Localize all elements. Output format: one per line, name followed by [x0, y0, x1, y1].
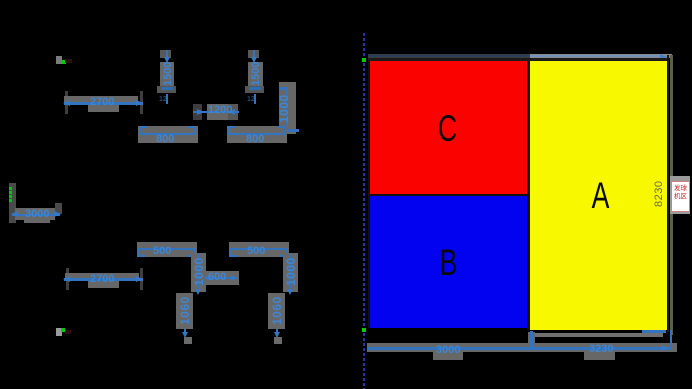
- vertical dimension 1500 bottom halo: [245, 86, 264, 93]
- dimension 2700 lower line: [64, 278, 143, 281]
- vertical dimension 1000 text: [279, 94, 290, 123]
- vertical dimension 1060 left halo: [176, 293, 193, 329]
- vertical dimension 1000 bottom-left halo: [191, 253, 206, 292]
- top right small arrow: [660, 54, 667, 60]
- dimension 500 right text: [247, 246, 265, 256]
- snap marker top: [362, 58, 366, 62]
- dimension 500 left text: [153, 246, 171, 256]
- dimension 800 left halo: [138, 126, 198, 143]
- dimension 800 right halo: [227, 126, 287, 143]
- divider vertical: [527, 61, 530, 330]
- dimension 600 text: [208, 272, 226, 282]
- snap marker bottom: [362, 328, 366, 332]
- right border: [667, 55, 669, 332]
- dimension 500 right halo: [229, 242, 289, 257]
- dimension 500 right shape: [230, 248, 232, 257]
- vertical dimension 1060 right arrow: [276, 329, 278, 335]
- bottom dims: hidden band under yellow: [535, 333, 663, 337]
- bottom grip box: [56, 328, 62, 336]
- dimension 2700 lower text: [90, 274, 114, 284]
- vertical dimension 600 text halo: [160, 62, 174, 87]
- dimension 800 left text: [156, 134, 174, 144]
- dimension 500 left halo: [137, 242, 197, 257]
- grip box: [56, 56, 62, 64]
- dimension 2700 text: [90, 97, 114, 107]
- divider C/B: [370, 194, 527, 196]
- bottom line right arrow: [661, 345, 669, 351]
- region C (red): [370, 61, 527, 194]
- top edge line: [368, 58, 669, 61]
- dimension 600 halo: [203, 271, 239, 285]
- dimension 2700 ghost extension right: [140, 91, 143, 114]
- dimension 2700 right arrow: [136, 100, 143, 106]
- label A: [586, 181, 616, 210]
- region B (blue): [370, 196, 527, 328]
- vertical dimension 600 bottom halo: [157, 86, 176, 93]
- dimension 2700 lower ghost right: [140, 268, 143, 290]
- bottom faint red smudge: [65, 330, 71, 334]
- vertical dimension 1060 right grip: [274, 337, 282, 344]
- dimension 800 left shape: [139, 126, 147, 128]
- label C: [433, 114, 463, 143]
- bottom dimension text 3230: [589, 344, 613, 354]
- dimension 1200 left arrow: [197, 109, 204, 115]
- vertical dimension 1060 right text: [272, 296, 283, 325]
- vertical text 8230: [654, 181, 664, 207]
- bottom dimension line: [367, 347, 672, 350]
- dimension 2700 ghost extension left: [65, 91, 68, 114]
- dimension 2700 halo: [64, 96, 138, 105]
- faint red smudge: [65, 59, 72, 63]
- dimension 600 arrows: [204, 275, 210, 281]
- dimension 1200 text: [208, 105, 232, 115]
- vertical dimension 1000 bottom stub: [285, 129, 299, 132]
- vertical dimension 600 down arrow: [166, 50, 168, 58]
- dimension 1200 right arrow: [228, 109, 235, 115]
- dimension 3000 arrows: [11, 211, 18, 217]
- vertical dimension 1000 bottom-right halo: [283, 253, 298, 292]
- dimension 2700 lower ghost left: [66, 268, 69, 290]
- right label gray backing: [670, 176, 690, 214]
- left border: [368, 61, 370, 328]
- bottom dimension text 3000: [436, 345, 460, 355]
- bottom text drop right: [584, 352, 615, 360]
- vertical dimension 1060 left grip: [184, 337, 192, 344]
- vertical dimension 1060 left text: [180, 296, 191, 325]
- vertical dimension 1000 top hook: [280, 87, 288, 90]
- vertical dimension 1000 bottom-left arrow: [195, 289, 201, 295]
- vertical dimension 1500 lower line: [254, 94, 256, 104]
- dimension 600 line: [205, 277, 237, 279]
- top edge halo dark: [368, 54, 530, 58]
- blue segment on yellow edge: [642, 330, 666, 333]
- bottom green snap marker: [61, 328, 65, 332]
- bottom text drop left: [433, 352, 463, 360]
- right halo strip: [670, 55, 673, 335]
- vertical dimension 1000 halo: [279, 82, 296, 134]
- dimension 2700 line: [64, 102, 143, 105]
- dimension 800 right shape: [228, 126, 236, 128]
- bottom dim separator tick: [528, 332, 535, 345]
- dimension 500 left shape: [138, 248, 140, 257]
- dimension 3000 halo: [15, 208, 55, 220]
- vertical dimension 1000 bottom-right text: [286, 257, 297, 286]
- vertical dimension 1500 top halo: [248, 50, 259, 58]
- bottom right vertical: [670, 330, 673, 350]
- vertical dimension 1500 text halo: [248, 62, 263, 88]
- dimension 1200 line: [193, 111, 239, 113]
- left grip strip: [9, 183, 16, 223]
- dimension 2700 left arrow: [63, 100, 70, 106]
- vertical dimension 1500 text: [251, 62, 261, 86]
- dimension 3000 line: [12, 214, 60, 216]
- vertical dimension 1000 bottom-right arrow: [287, 289, 293, 295]
- vertical dimension 1000 bottom-left line: [197, 254, 199, 288]
- construction dashed line: [363, 33, 365, 389]
- top hidden dim line light part: [530, 55, 666, 57]
- vertical dimension 1060 right halo: [268, 293, 285, 329]
- green markers column: [9, 187, 12, 190]
- vertical dimension 600 text: [163, 62, 173, 86]
- label B: [434, 248, 464, 277]
- vertical dimension 600 top halo: [160, 50, 171, 58]
- dimension 3000 text: [25, 209, 49, 219]
- region A (yellow): [530, 61, 667, 330]
- vertical dimension 600 grips: [159, 95, 167, 105]
- right label box 发球机区: [671, 181, 690, 212]
- vertical dimension 1500 down arrow: [253, 50, 255, 58]
- vertical dimension 600 lower line: [166, 94, 168, 104]
- vertical dimension 1500 grips: [247, 95, 255, 105]
- vertical dimension 1500 bottom arrow: [249, 87, 261, 90]
- vertical dimension 600 bottom arrow: [161, 87, 173, 90]
- vertical dimension 1000 bottom-right line: [289, 254, 291, 288]
- vertical dimension 1000 line: [286, 89, 288, 131]
- dimension 1200 halo: [193, 104, 202, 120]
- vertical dimension 1000 bottom-left text: [194, 257, 205, 286]
- top hidden dim line dark part: [368, 55, 530, 57]
- top edge halo light: [530, 54, 672, 58]
- dimension 800 right text: [246, 134, 264, 144]
- dimension 2700 lower arrows: [63, 276, 70, 282]
- dimension 2700 lower halo: [65, 273, 139, 281]
- green snap marker: [62, 60, 66, 64]
- bottom main halo band: [367, 343, 677, 352]
- vertical dimension 1060 left arrow: [184, 329, 186, 335]
